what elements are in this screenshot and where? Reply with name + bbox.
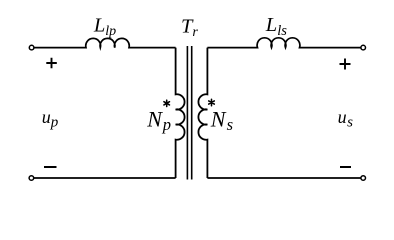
- svg-text:Lls: Lls: [265, 14, 287, 39]
- svg-text:us: us: [338, 107, 354, 130]
- svg-text:Ns: Ns: [210, 107, 233, 135]
- svg-text:Np: Np: [146, 107, 171, 135]
- svg-text:Llp: Llp: [93, 15, 116, 40]
- svg-text:Tr: Tr: [181, 16, 198, 41]
- svg-text:up: up: [42, 107, 59, 130]
